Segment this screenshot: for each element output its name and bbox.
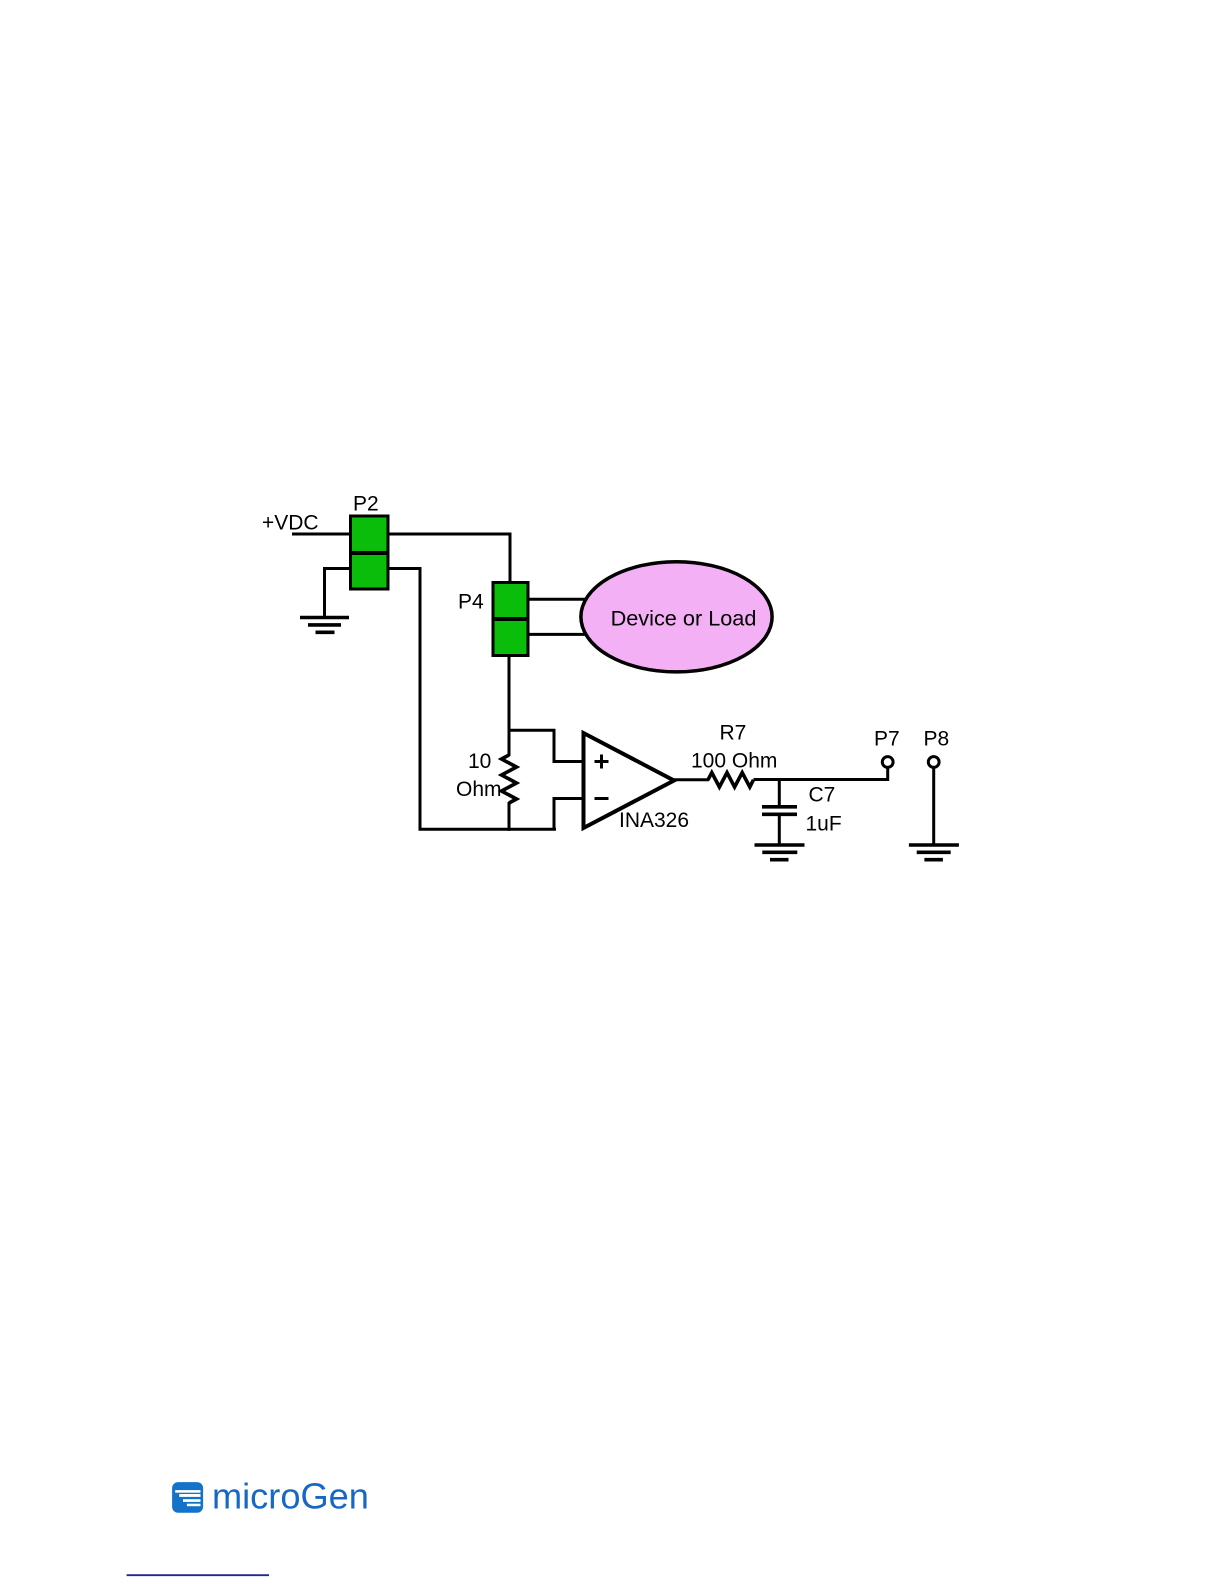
wire +VDC to P2 pin1 <box>292 533 352 536</box>
wire P2 pin2 to ground stub <box>325 569 351 617</box>
wire bottom rail <box>419 828 557 831</box>
Device or Load ellipse <box>581 562 772 672</box>
svg-text:microGen: microGen <box>212 1476 369 1517</box>
node C7 junction stub <box>778 780 781 807</box>
svg-text:Ohm: Ohm <box>456 778 502 801</box>
wire P2 pin2 to bottom rail <box>388 569 420 830</box>
wire P4 pin1 to Device or Load <box>528 598 590 601</box>
svg-text:Device or Load: Device or Load <box>611 606 757 631</box>
svg-text:10: 10 <box>468 750 491 773</box>
wire P4 pin2 down to resistor <box>508 656 511 757</box>
connector P2 <box>351 516 389 589</box>
svg-text:R7: R7 <box>720 722 747 745</box>
resistor 10 Ohm <box>502 755 517 803</box>
wire op-amp - input to bottom rail <box>554 799 583 830</box>
microGen logo icon <box>172 1482 203 1513</box>
ground (C7) <box>755 845 805 860</box>
resistor R7 <box>708 773 754 787</box>
svg-text:P8: P8 <box>924 728 950 751</box>
terminal P8 stub <box>932 767 935 844</box>
connector P4 <box>493 583 528 656</box>
wire branch to op-amp + input <box>509 730 583 761</box>
wire op-amp output to R7 <box>672 778 709 781</box>
svg-text:C7: C7 <box>809 784 836 807</box>
svg-text:P2: P2 <box>353 493 379 516</box>
wire P4 pin2 to Device or Load <box>528 633 590 636</box>
capacitor C7 <box>762 807 797 815</box>
op-amp U1 INA326 triangle <box>584 733 675 828</box>
svg-text:INA326: INA326 <box>619 809 689 832</box>
footer rule <box>127 1574 269 1576</box>
svg-text:P7: P7 <box>874 728 900 751</box>
ground (P8) <box>909 845 959 860</box>
ground (P2) <box>300 618 349 633</box>
svg-text:1uF: 1uF <box>806 813 842 836</box>
wire P2 pin1 to node over P4 <box>388 534 510 584</box>
wire resistor bottom to bottom rail <box>508 802 511 831</box>
svg-text:P4: P4 <box>458 591 484 614</box>
svg-text:+VDC: +VDC <box>262 512 319 535</box>
terminal P7 stub <box>886 767 889 781</box>
svg-text:100 Ohm: 100 Ohm <box>691 749 777 772</box>
op-amp plus input marking <box>595 755 609 769</box>
terminal P8 circle <box>928 757 939 768</box>
op-amp minus input marking <box>595 797 609 800</box>
wire C7 to ground <box>778 815 781 844</box>
wire R7 to P7 <box>754 778 888 781</box>
terminal P7 circle <box>882 757 893 768</box>
